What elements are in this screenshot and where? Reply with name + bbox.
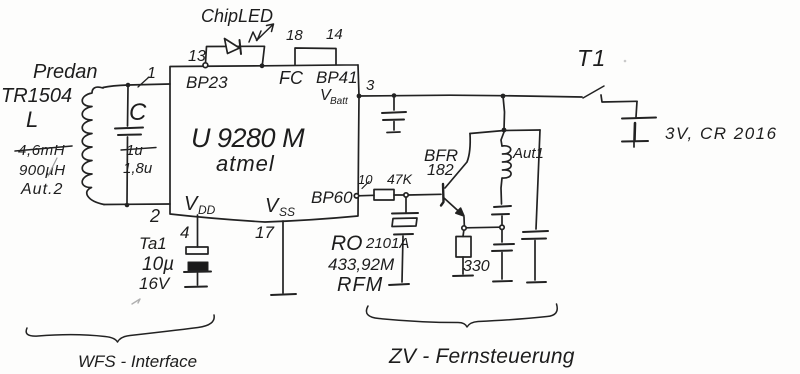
value 4,6mH (struck): [15, 142, 72, 159]
resistor R1 47K: [374, 190, 394, 201]
svg-text:V: V: [265, 195, 280, 217]
svg-text:WFS - Interface: WFS - Interface: [78, 352, 197, 371]
SAW resonator RO2101A: [392, 197, 418, 282]
svg-text:C: C: [129, 99, 147, 126]
capacitor C3 (tank upper): [492, 206, 511, 224]
svg-text:330: 330: [463, 258, 490, 275]
svg-text:L: L: [26, 107, 38, 132]
svg-text:BP23: BP23: [186, 73, 228, 92]
svg-text:T1: T1: [577, 45, 607, 71]
svg-text:Ta1: Ta1: [139, 234, 167, 253]
LED emission arrow: [249, 24, 274, 42]
wire resistor to base: [394, 194, 404, 196]
svg-text:3V, CR 2016: 3V, CR 2016: [665, 124, 778, 143]
svg-text:2101A: 2101A: [365, 235, 409, 252]
node BP60 pin: [354, 194, 358, 198]
IC pin label VDD: [184, 193, 216, 217]
ground VSS: [271, 294, 296, 295]
svg-text:Predan: Predan: [33, 61, 98, 83]
svg-text:10µ: 10µ: [142, 254, 174, 275]
svg-text:SS: SS: [279, 205, 295, 219]
svg-text:RO: RO: [331, 232, 363, 255]
svg-text:BP60: BP60: [311, 188, 353, 207]
pin number 1: [138, 65, 156, 87]
svg-text:ZV - Fernsteuerung: ZV - Fernsteuerung: [388, 345, 575, 368]
value 900uH: [19, 158, 66, 179]
node rail tap: [501, 94, 506, 99]
wire pin1 (coil top to IC): [103, 84, 170, 88]
wire emitter to tank: [466, 226, 499, 229]
capacitor C4 (tank lower): [492, 230, 514, 279]
wire emitter to node: [463, 217, 465, 225]
svg-text:Aut.2: Aut.2: [20, 181, 63, 198]
node junction C top: [126, 83, 131, 88]
node pin3: [357, 94, 362, 99]
LED loop wire (pin13 to top): [206, 46, 265, 63]
svg-text:RFM: RFM: [337, 274, 383, 296]
value 1u (struck): [121, 142, 156, 159]
svg-text:47K: 47K: [387, 171, 413, 187]
inductor L (Predan TR1504 antenna coil): [82, 87, 104, 204]
svg-text:900µH: 900µH: [19, 162, 66, 179]
svg-text:1u: 1u: [126, 142, 143, 159]
ground R2: [453, 275, 473, 278]
wire VBatt rail (pin3 to switch): [359, 95, 582, 97]
svg-text:U 9280 M: U 9280 M: [191, 123, 305, 153]
svg-text:FC: FC: [279, 68, 304, 88]
svg-text:18: 18: [286, 27, 303, 44]
IC pin label VSS: [265, 195, 295, 219]
svg-text:Batt: Batt: [330, 96, 349, 107]
wire collector drop: [503, 96, 505, 130]
svg-text:DD: DD: [198, 203, 216, 217]
svg-text:182: 182: [427, 162, 454, 179]
battery B1 CR2016: [622, 101, 656, 147]
node junction C bottom: [125, 203, 130, 208]
node C2 tap: [392, 93, 397, 98]
svg-text:16V: 16V: [139, 274, 171, 293]
svg-text:1,8u: 1,8u: [123, 160, 153, 177]
node pin13: [203, 63, 208, 68]
wire pin17 VSS to ground: [282, 221, 284, 293]
capacitor Ta1 (electrolytic 10u): [184, 215, 211, 285]
svg-text:TR1504: TR1504: [1, 85, 72, 107]
pin number 10: [358, 172, 373, 189]
wire collector lead: [445, 134, 470, 189]
svg-text:433,92M: 433,92M: [328, 255, 395, 274]
ground C4: [493, 280, 512, 283]
svg-text:BP41: BP41: [316, 68, 358, 87]
svg-text:3: 3: [366, 77, 375, 94]
diode ChipLED D1: [225, 39, 242, 55]
jumper wire pins 18-14: [295, 48, 336, 65]
stray pencil mark: [132, 299, 140, 304]
stray smudge: [624, 60, 627, 63]
svg-text:V: V: [184, 193, 199, 215]
ground SAW: [389, 284, 409, 285]
label RO 2101A: [331, 232, 409, 255]
transistor Q1 BFR182: [441, 184, 464, 216]
capacitor C (1,8u): [115, 87, 143, 203]
inductor Aut1: [501, 132, 511, 204]
node base junction: [404, 193, 408, 197]
wire pin2 (coil bottom to IC): [104, 203, 170, 206]
resistor R2 330: [456, 231, 471, 275]
IC label U9280M: [191, 123, 305, 176]
wire collector loop top: [470, 130, 540, 134]
ground Ta1: [185, 286, 207, 289]
node collector loop: [502, 128, 507, 133]
node LED return: [260, 63, 265, 68]
svg-text:4: 4: [180, 223, 189, 242]
brace ZV group: [366, 304, 557, 327]
svg-text:1: 1: [147, 65, 156, 82]
node emitter junction: [462, 226, 466, 230]
node tank junction: [500, 225, 504, 229]
wire BP60 to resistor: [358, 194, 374, 197]
svg-text:14: 14: [326, 26, 343, 43]
svg-text:2: 2: [149, 206, 160, 226]
svg-text:17: 17: [255, 223, 274, 242]
brace WFS group: [26, 315, 214, 342]
capacitor C5 (right): [522, 231, 548, 280]
wire base: [408, 193, 441, 196]
ground C5: [527, 281, 546, 284]
wire right branch: [536, 130, 540, 229]
switch T1: [583, 86, 637, 102]
svg-text:ChipLED: ChipLED: [201, 6, 273, 26]
svg-text:atmel: atmel: [216, 151, 275, 176]
IC pin label VBatt: [320, 87, 349, 107]
capacitor C2 (decoupling at VBatt): [382, 96, 406, 133]
svg-text:13: 13: [188, 48, 206, 65]
IC U1 U9280M outline: [170, 65, 359, 222]
